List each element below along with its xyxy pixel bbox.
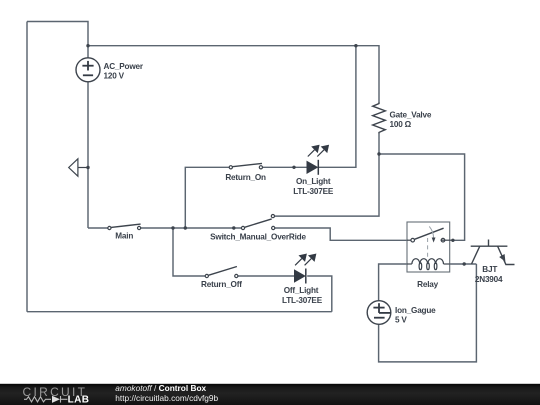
footer logo circuit line with diode bbox=[24, 396, 67, 403]
voltage source V1 AC_Power bbox=[76, 58, 100, 82]
svg-text:Return_Off: Return_Off bbox=[201, 280, 242, 289]
svg-text:Relay: Relay bbox=[417, 280, 438, 289]
wire override bottom throw to relay left pin bbox=[275, 228, 407, 240]
relay coil L1 bbox=[407, 259, 450, 270]
junction node return-off branch bbox=[171, 226, 174, 229]
LED D2 Off_Light bbox=[294, 254, 316, 283]
junction node at on-light anode bbox=[292, 166, 295, 169]
svg-text:5 V: 5 V bbox=[395, 315, 407, 324]
wire off-light riser bbox=[307, 276, 332, 312]
relay contact right pin bbox=[441, 238, 453, 242]
svg-text:100 Ω: 100 Ω bbox=[390, 120, 412, 129]
wire main row middle bbox=[141, 227, 242, 229]
wire main row left bbox=[88, 227, 108, 229]
junction node at AC top bbox=[86, 44, 89, 47]
wire top rail bbox=[27, 22, 88, 58]
label Off_Light LTL-307EE bbox=[282, 286, 323, 305]
svg-text:BJT: BJT bbox=[482, 265, 497, 274]
label AC_Power 120 V bbox=[104, 62, 144, 81]
switch Main bbox=[108, 224, 141, 229]
label Gate_Valve 100 Ω bbox=[390, 111, 432, 129]
svg-text:Return_On: Return_On bbox=[225, 173, 266, 182]
switch Switch_Manual_OverRide (SPDT) bbox=[241, 215, 274, 230]
wire relay coil to bjt bbox=[450, 263, 477, 265]
svg-text:120 V: 120 V bbox=[104, 72, 125, 81]
junction node at on-light riser top bbox=[354, 44, 357, 47]
wire AC bottom to main row bbox=[87, 82, 89, 228]
svg-text:Switch_Manual_OverRide: Switch_Manual_OverRide bbox=[210, 233, 306, 242]
wire left rail bbox=[26, 22, 28, 312]
relay contact left pin bbox=[407, 238, 415, 242]
label BJT 2N3904 bbox=[475, 265, 503, 284]
junction node return-on branch bbox=[184, 226, 187, 229]
relay K1 box bbox=[407, 222, 450, 272]
wire ion gauge loop left bbox=[379, 264, 407, 301]
svg-text:Main: Main bbox=[115, 231, 133, 240]
wire on-light to top node bbox=[318, 46, 356, 168]
junction node at override switch input bbox=[232, 226, 235, 229]
svg-text:amokotoff / Control Box: amokotoff / Control Box bbox=[115, 383, 206, 393]
junction node at bjt collector bbox=[463, 262, 466, 265]
resistor R1 Gate_Valve bbox=[373, 102, 386, 134]
wire return-on to on-light bbox=[263, 166, 307, 168]
switch Return_On bbox=[229, 163, 262, 169]
wire ion gauge loop bottom bbox=[379, 264, 477, 362]
svg-text:Off_Light: Off_Light bbox=[284, 286, 319, 295]
wire bottom rail bbox=[27, 311, 332, 313]
label On_Light LTL-307EE bbox=[293, 177, 334, 196]
junction node at relay right pin bbox=[451, 239, 454, 242]
svg-text:http://circuitlab.com/cdvfg9b: http://circuitlab.com/cdvfg9b bbox=[115, 393, 218, 403]
svg-text:Gate_Valve: Gate_Valve bbox=[390, 111, 432, 120]
wire AC top to resistor top bbox=[88, 46, 379, 102]
node flag (antenna marker) bbox=[69, 159, 88, 176]
svg-text:LAB: LAB bbox=[68, 395, 90, 405]
relay contact lever bbox=[415, 228, 444, 239]
label Ion_Gague 5 V bbox=[395, 306, 436, 324]
relay actuator dashed link bbox=[428, 226, 434, 257]
wire return-off branch bbox=[173, 228, 205, 276]
svg-text:On_Light: On_Light bbox=[296, 177, 331, 186]
voltage source V2 Ion_Gague bbox=[367, 301, 391, 325]
svg-text:LTL-307EE: LTL-307EE bbox=[293, 187, 334, 196]
svg-text:2N3904: 2N3904 bbox=[475, 275, 503, 284]
svg-text:LTL-307EE: LTL-307EE bbox=[282, 296, 323, 305]
wire resistor bottom to node bbox=[378, 134, 380, 155]
junction node at flag bbox=[86, 166, 89, 169]
wire node to relay right pin bbox=[379, 154, 465, 240]
footer bar bbox=[0, 384, 540, 405]
wire return-off to off-light bbox=[238, 275, 294, 277]
wire return-on branch bbox=[185, 167, 229, 228]
svg-text:AC_Power: AC_Power bbox=[104, 62, 144, 71]
transistor Q1 BJT 2N3904 bbox=[471, 240, 515, 265]
junction node at resistor bottom bbox=[377, 152, 380, 155]
wire node to override top throw bbox=[275, 154, 379, 216]
switch Return_Off bbox=[205, 267, 238, 278]
svg-text:Ion_Gague: Ion_Gague bbox=[395, 306, 436, 315]
LED D1 On_Light bbox=[307, 146, 329, 175]
